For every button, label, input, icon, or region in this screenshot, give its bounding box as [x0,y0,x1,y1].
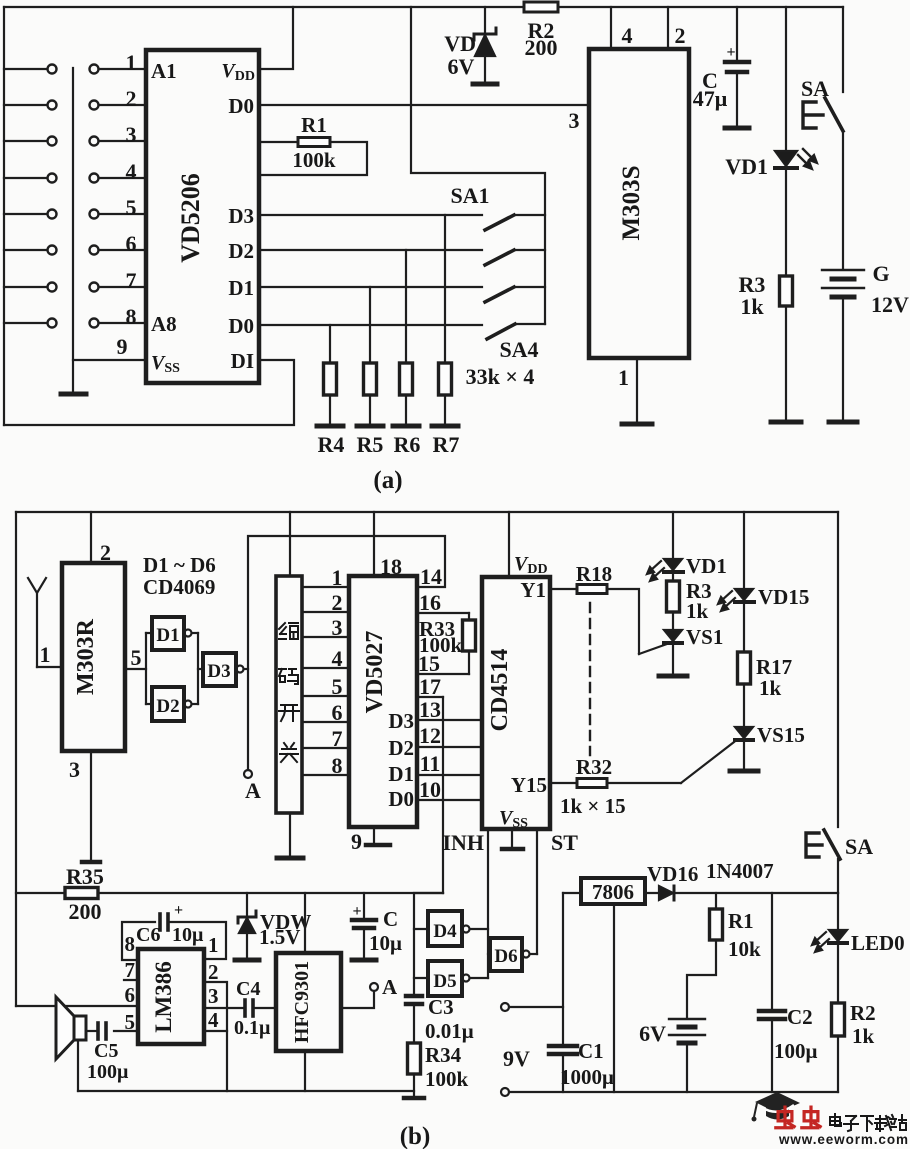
inverter D1 [152,617,184,650]
wire D6 output to ST [530,953,537,955]
svg-text:1N4007: 1N4007 [706,859,774,883]
svg-text:12: 12 [419,723,441,748]
svg-text:D3: D3 [388,709,414,733]
wire C2 drop [771,893,773,1009]
terminal row 5 right contact [90,210,99,219]
wire row 8 to pin 8 of U-VD5206 [99,322,146,324]
svg-text:SA1: SA1 [450,183,489,208]
dashed repeat indicator [589,603,591,755]
wire HFC9301 bottom ground [304,1051,306,1091]
ground VS1 [659,674,687,679]
battery 6V [669,1018,705,1020]
terminal row 2 right contact [90,101,99,110]
wire 7806 output [645,892,659,894]
svg-text:D2: D2 [388,736,414,760]
label coding switch char ma [279,669,298,684]
svg-text:6: 6 [332,700,343,725]
wire SA to supply rail [837,859,839,893]
resistor R34 [408,1043,421,1074]
svg-text:D3: D3 [228,204,254,228]
svg-text:A1: A1 [151,59,177,83]
thyristor VS15 [735,727,753,738]
terminal row 4 right contact [90,174,99,183]
wire pin 1 M303S to ground [636,358,638,422]
svg-text:47μ: 47μ [693,86,728,111]
ground keypad bus [61,392,86,397]
wire coding switch pin 3 [302,636,349,638]
wire C3 to R34 [413,1006,415,1043]
label coding switch char kai [279,705,299,721]
wire pin 12 D2 [417,746,482,748]
wire row 5 to pin 5 of U-VD5206 [99,213,146,215]
node A terminal (encoder side) [244,770,252,778]
svg-text:1: 1 [208,933,219,957]
wire pin 1 M303R [37,666,62,668]
svg-text:4: 4 [622,23,633,48]
terminal row 4 left contact [48,174,57,183]
diode VD 6V zener [474,28,496,40]
svg-text:VD16: VD16 [647,862,698,886]
wire top rail (b) [16,511,838,513]
terminal 9V positive [501,1003,509,1011]
resistor R2 [524,2,558,12]
wire R1 to battery [687,940,716,1017]
wire row 6 to pin 6 of U-VD5206 [99,249,146,251]
LED LED0 [837,893,839,929]
resistor R33 [468,613,470,620]
wire R35 rail [16,892,65,894]
svg-text:VSS: VSS [499,807,528,831]
svg-text:5: 5 [125,1010,136,1034]
svg-text:200: 200 [69,899,102,924]
resistor R7 [439,363,452,395]
terminal row 5 left contact [48,210,57,219]
wire R6 tap [405,250,407,363]
svg-text:7: 7 [126,268,137,293]
wire pin 10 D0 [417,799,482,801]
ground C 47u [725,126,749,131]
svg-text:2: 2 [208,960,219,984]
wire D4 D5 outputs to INH [470,928,488,930]
svg-text:R34: R34 [425,1043,462,1067]
IC U6 LM386 audio amp [138,949,204,1044]
capacitor C 47u [725,60,749,65]
svg-text:R7: R7 [433,432,460,457]
svg-text:A8: A8 [151,312,177,336]
terminal row 7 right contact [90,283,99,292]
diode VD16 1N4007 [659,886,673,900]
svg-text:100k: 100k [425,1067,469,1091]
wire pin 18 VD5027 [373,512,375,576]
terminal row 3 right contact [90,137,99,146]
wire coding switch pin 4 [302,667,349,669]
svg-text:DI: DI [231,349,254,373]
svg-text:10μ: 10μ [172,924,204,946]
svg-text:D0: D0 [228,94,254,118]
svg-text:(b): (b) [400,1123,431,1149]
svg-text:R6: R6 [394,432,421,457]
terminal row 6 left contact [48,246,57,255]
resistor R3 [780,276,793,306]
svg-text:D0: D0 [388,787,414,811]
wire ST line to D6 output [536,829,538,954]
svg-text:INH: INH [442,830,484,855]
wire R18 to VS1 gate [607,589,639,654]
wire D2 to SA2 [259,249,482,251]
svg-text:13: 13 [419,697,441,722]
terminal row 6 right contact [90,246,99,255]
wire D0 to SA4 [259,324,482,326]
ground VS15 [730,769,758,774]
svg-text:9: 9 [351,829,362,854]
wire pin 2 M303R [90,512,92,563]
terminal row 8 left contact [48,319,57,328]
wire 6V supply rail [675,892,838,894]
terminal row 1 right contact [90,65,99,74]
wire coding switch top [289,512,291,576]
IC U2 M303S transmitter [589,49,689,358]
ground pin 3 termination [82,860,100,865]
svg-text:R1: R1 [728,909,754,933]
ground M303S [622,422,652,427]
svg-text:G: G [872,261,889,286]
wire VDD CD4514 [508,512,510,577]
svg-text:5: 5 [131,645,142,670]
svg-text:A: A [382,975,398,999]
wire coding switch pin 5 [302,695,349,697]
svg-text:17: 17 [419,674,441,699]
wire ground rail (b left) [78,1090,414,1092]
wire pin 8 to C6 loop [122,922,155,960]
ground C 10u [352,958,376,963]
wire LED0 to R2 [837,945,839,1003]
svg-text:M303R: M303R [73,618,99,695]
svg-text:+: + [174,902,183,919]
ground G [829,420,857,425]
svg-text:D1: D1 [156,625,179,646]
wire R4 tap [329,325,331,363]
wire pin 11 D1 [417,774,482,776]
wire D1 to SA3 [259,286,482,288]
wire R1 drop [715,893,717,909]
wire SA to G [842,131,844,268]
svg-text:0.01μ: 0.01μ [425,1019,474,1043]
svg-text:VD5206: VD5206 [176,173,205,263]
wire VD1 drop [785,7,787,150]
svg-text:11: 11 [420,751,441,776]
switch SA3 blade [485,287,514,302]
svg-text:16: 16 [419,590,441,615]
wire top power rail (a) [4,6,843,8]
svg-text:VSS: VSS [151,352,180,376]
wire D0 to M303S pin 3 [259,104,589,106]
battery G 12V [822,269,864,271]
wire pin 13 D3 [417,719,482,721]
svg-text:1.5V: 1.5V [259,925,300,949]
capacitor C1 [549,1044,577,1049]
wire R5 tap [369,287,371,363]
svg-text:R18: R18 [576,562,612,586]
wire SA drop [842,7,844,92]
svg-text:33k × 4: 33k × 4 [466,364,535,389]
svg-text:1: 1 [40,642,51,667]
wire coding switch pin 7 [302,747,349,749]
svg-text:3: 3 [332,615,343,640]
switch SA4 blade [487,324,515,339]
switch SA1 blade [485,215,514,230]
svg-text:1k × 15: 1k × 15 [560,794,626,818]
capacitor C3 [406,994,422,999]
inverter D6 [488,953,490,955]
wire to R17 [743,604,745,652]
svg-text:CD4069: CD4069 [143,575,215,599]
wire R1 feedback loop [259,141,298,143]
svg-text:C1: C1 [578,1039,604,1063]
svg-text:1000μ: 1000μ [560,1065,614,1089]
wire pin 2 M303S [667,7,669,49]
wire coding switch pin 2 [302,611,349,613]
ground R6 [393,424,419,429]
inverter D2 [152,687,184,721]
resistor R18 [577,585,607,594]
svg-text:R5: R5 [357,432,384,457]
wire Vss to ground [511,829,513,847]
wire oscillator column to C3 [414,893,443,996]
ground R3 [771,420,801,425]
wire C5 to speaker [86,1030,96,1032]
svg-text:1: 1 [126,50,137,75]
wire gate input split [145,633,147,704]
svg-text:www.eeworm.com: www.eeworm.com [778,1132,909,1147]
svg-text:SA: SA [801,76,829,101]
svg-text:4: 4 [126,159,137,184]
resistor R17 [738,652,751,684]
wire left border (b) [15,512,17,1006]
coding switch block (bian ma kai guan) [276,576,302,813]
LED VD1 [775,151,797,166]
svg-text:(a): (a) [373,467,402,494]
label coding switch char guan [280,743,298,762]
svg-text:ST: ST [551,830,578,855]
svg-text:M303S: M303S [618,166,645,241]
svg-text:LED0: LED0 [851,931,905,955]
wire to R3 [672,574,674,581]
wire keypad row 6 left [4,249,47,251]
wire HFC9301 top supply [304,893,306,953]
wire pin 9 VD5027 to ground [373,827,375,843]
svg-text:Y15: Y15 [511,773,547,797]
svg-text:R4: R4 [318,432,345,457]
wire VD15 chain drop [743,512,745,588]
svg-text:D5: D5 [433,971,456,992]
capacitor C6 10u [158,914,162,930]
LED VD1 (receiver) [664,559,682,570]
wire C6 to pin 1 [170,922,226,959]
wire R34 to ground rail [413,1074,415,1096]
wire Y1 to R18 [550,588,577,590]
IC U5 CD4514 decoder/driver [482,577,550,829]
capacitor C4 0.1u [243,1000,247,1016]
svg-text:100μ: 100μ [87,1061,129,1083]
regulator 7806 [581,878,645,904]
svg-text:VD5027: VD5027 [362,631,388,714]
ground R34 [404,1096,424,1101]
wire R1 loop return [259,142,367,175]
wire VD1 chain drop [672,512,674,558]
LED VD15 [735,589,753,600]
wire pin 5 to C5 [114,1030,138,1032]
svg-text:C4: C4 [236,978,260,1000]
wire keypad row 4 left [4,177,47,179]
svg-text:100k: 100k [292,148,336,172]
svg-text:7806: 7806 [592,880,634,904]
svg-text:D1: D1 [228,276,254,300]
svg-text:100μ: 100μ [774,1039,818,1063]
wire switch common bus to top rail [411,7,545,324]
svg-text:VD1: VD1 [686,554,727,578]
svg-text:VDD: VDD [514,553,548,577]
svg-text:4: 4 [332,646,343,671]
resistor R5 [364,363,377,395]
resistor R1 (receiver) [710,909,723,940]
svg-text:2: 2 [100,540,111,565]
svg-text:3: 3 [69,757,80,782]
svg-text:2: 2 [332,590,343,615]
svg-text:D4: D4 [433,921,457,942]
wire VDD to top rail [259,7,293,69]
wire gate outputs join [192,632,198,634]
terminal row 2 left contact [48,101,57,110]
svg-text:2: 2 [675,23,686,48]
svg-text:4: 4 [208,1008,219,1032]
svg-text:2: 2 [126,86,137,111]
resistor R3 (receiver) [667,581,680,612]
terminal row 8 right contact [90,319,99,328]
wire bottom return (a) [4,360,294,425]
svg-text:LM386: LM386 [151,961,176,1033]
svg-text:10: 10 [419,777,441,802]
svg-text:0.1μ: 0.1μ [234,1017,271,1039]
svg-text:1: 1 [618,365,629,390]
wire VD1 to R3 [785,170,787,276]
wire coding switch pin 6 [302,721,349,723]
IC U4 VD5027 decoder [349,576,417,827]
svg-text:+: + [352,903,361,920]
svg-text:8: 8 [332,753,343,778]
IC U1 VD5206 encoder [146,50,259,383]
wire HFC9301 output to node A [341,991,374,1008]
svg-text:D6: D6 [494,946,517,967]
switch SA2 blade [485,250,514,265]
wire C 47u drop [736,7,738,60]
svg-text:3: 3 [569,108,580,133]
svg-text:C3: C3 [428,995,454,1019]
ground coding switch [277,856,303,861]
wire row 2 to pin 2 of U-VD5206 [99,104,146,106]
speaker [74,1016,86,1040]
resistor R2 (receiver) [832,1003,845,1036]
wire Vss pin 9 [73,359,146,361]
wire right border (b) [837,512,839,827]
svg-text:+: + [726,44,735,61]
wire keypad row 2 left [4,104,47,106]
svg-text:C5: C5 [94,1040,118,1062]
svg-text:D3: D3 [207,661,230,682]
IC U7 HFC9301 [276,953,341,1051]
resistor R4 [324,363,337,395]
wire coding switch pin 8 [302,774,349,776]
svg-text:5: 5 [126,195,137,220]
svg-text:7: 7 [125,958,136,982]
svg-text:6: 6 [126,231,137,256]
terminal row 3 left contact [48,137,57,146]
svg-text:5: 5 [332,674,343,699]
ground VD zener [473,82,497,87]
svg-text:1: 1 [332,565,343,590]
wire pin 7 stub [124,979,138,981]
ground R7 [432,424,458,429]
wire row 7 to pin 7 of U-VD5206 [99,286,146,288]
svg-text:3: 3 [126,122,137,147]
wire C4 to HFC9301 [255,1007,276,1009]
svg-text:C6: C6 [136,924,160,946]
svg-text:HFC9301: HFC9301 [291,961,313,1043]
wire keypad row 8 left [4,322,47,324]
watermark graduation cap logo [752,1092,801,1122]
ground VDW [235,958,259,963]
wire D3 to SA1 [259,214,482,216]
svg-text:18: 18 [380,554,402,579]
watermark chongchong red characters [776,1107,820,1128]
wire pin 4 M303S [610,7,612,49]
svg-text:6: 6 [125,983,136,1007]
wire 7806 ground pin [613,904,615,1092]
wire keypad row 5 left [4,213,47,215]
svg-text:VD: VD [444,31,476,56]
wire pin 5 M303R [125,668,146,670]
svg-text:1k: 1k [686,599,709,623]
resistor R35 [65,888,98,899]
wire D3 output to pin 14 and node A [244,668,248,670]
svg-text:200: 200 [525,35,558,60]
svg-text:D0: D0 [228,314,254,338]
switch SA (receiver) [824,830,840,859]
wire row 3 to pin 3 of U-VD5206 [99,140,146,142]
svg-text:10k: 10k [728,937,761,961]
svg-text:SA: SA [845,834,873,859]
wire zener drop [484,7,486,34]
wire left border (a) [3,7,5,425]
wire keypad row 7 left [4,286,47,288]
wire keypad row 3 left [4,140,47,142]
ground R4 [317,424,343,429]
svg-text:VDD: VDD [221,60,255,84]
thyristor VS1 [664,630,682,641]
wire pin 15 [417,673,469,675]
svg-text:1k: 1k [740,294,764,319]
label coding switch char bian [279,623,298,639]
wire keypad common bus [72,68,74,392]
watermark text dian zi xia zai zhan [830,1114,906,1131]
wire 7806 input [563,892,581,894]
wire coding switch bottom [289,813,291,856]
svg-text:D2: D2 [156,696,179,717]
resistor R1 [298,138,330,147]
svg-text:VS15: VS15 [757,723,805,747]
node A terminal (audio side) [370,983,378,991]
svg-text:12V: 12V [871,292,909,317]
svg-text:VS1: VS1 [686,625,723,649]
